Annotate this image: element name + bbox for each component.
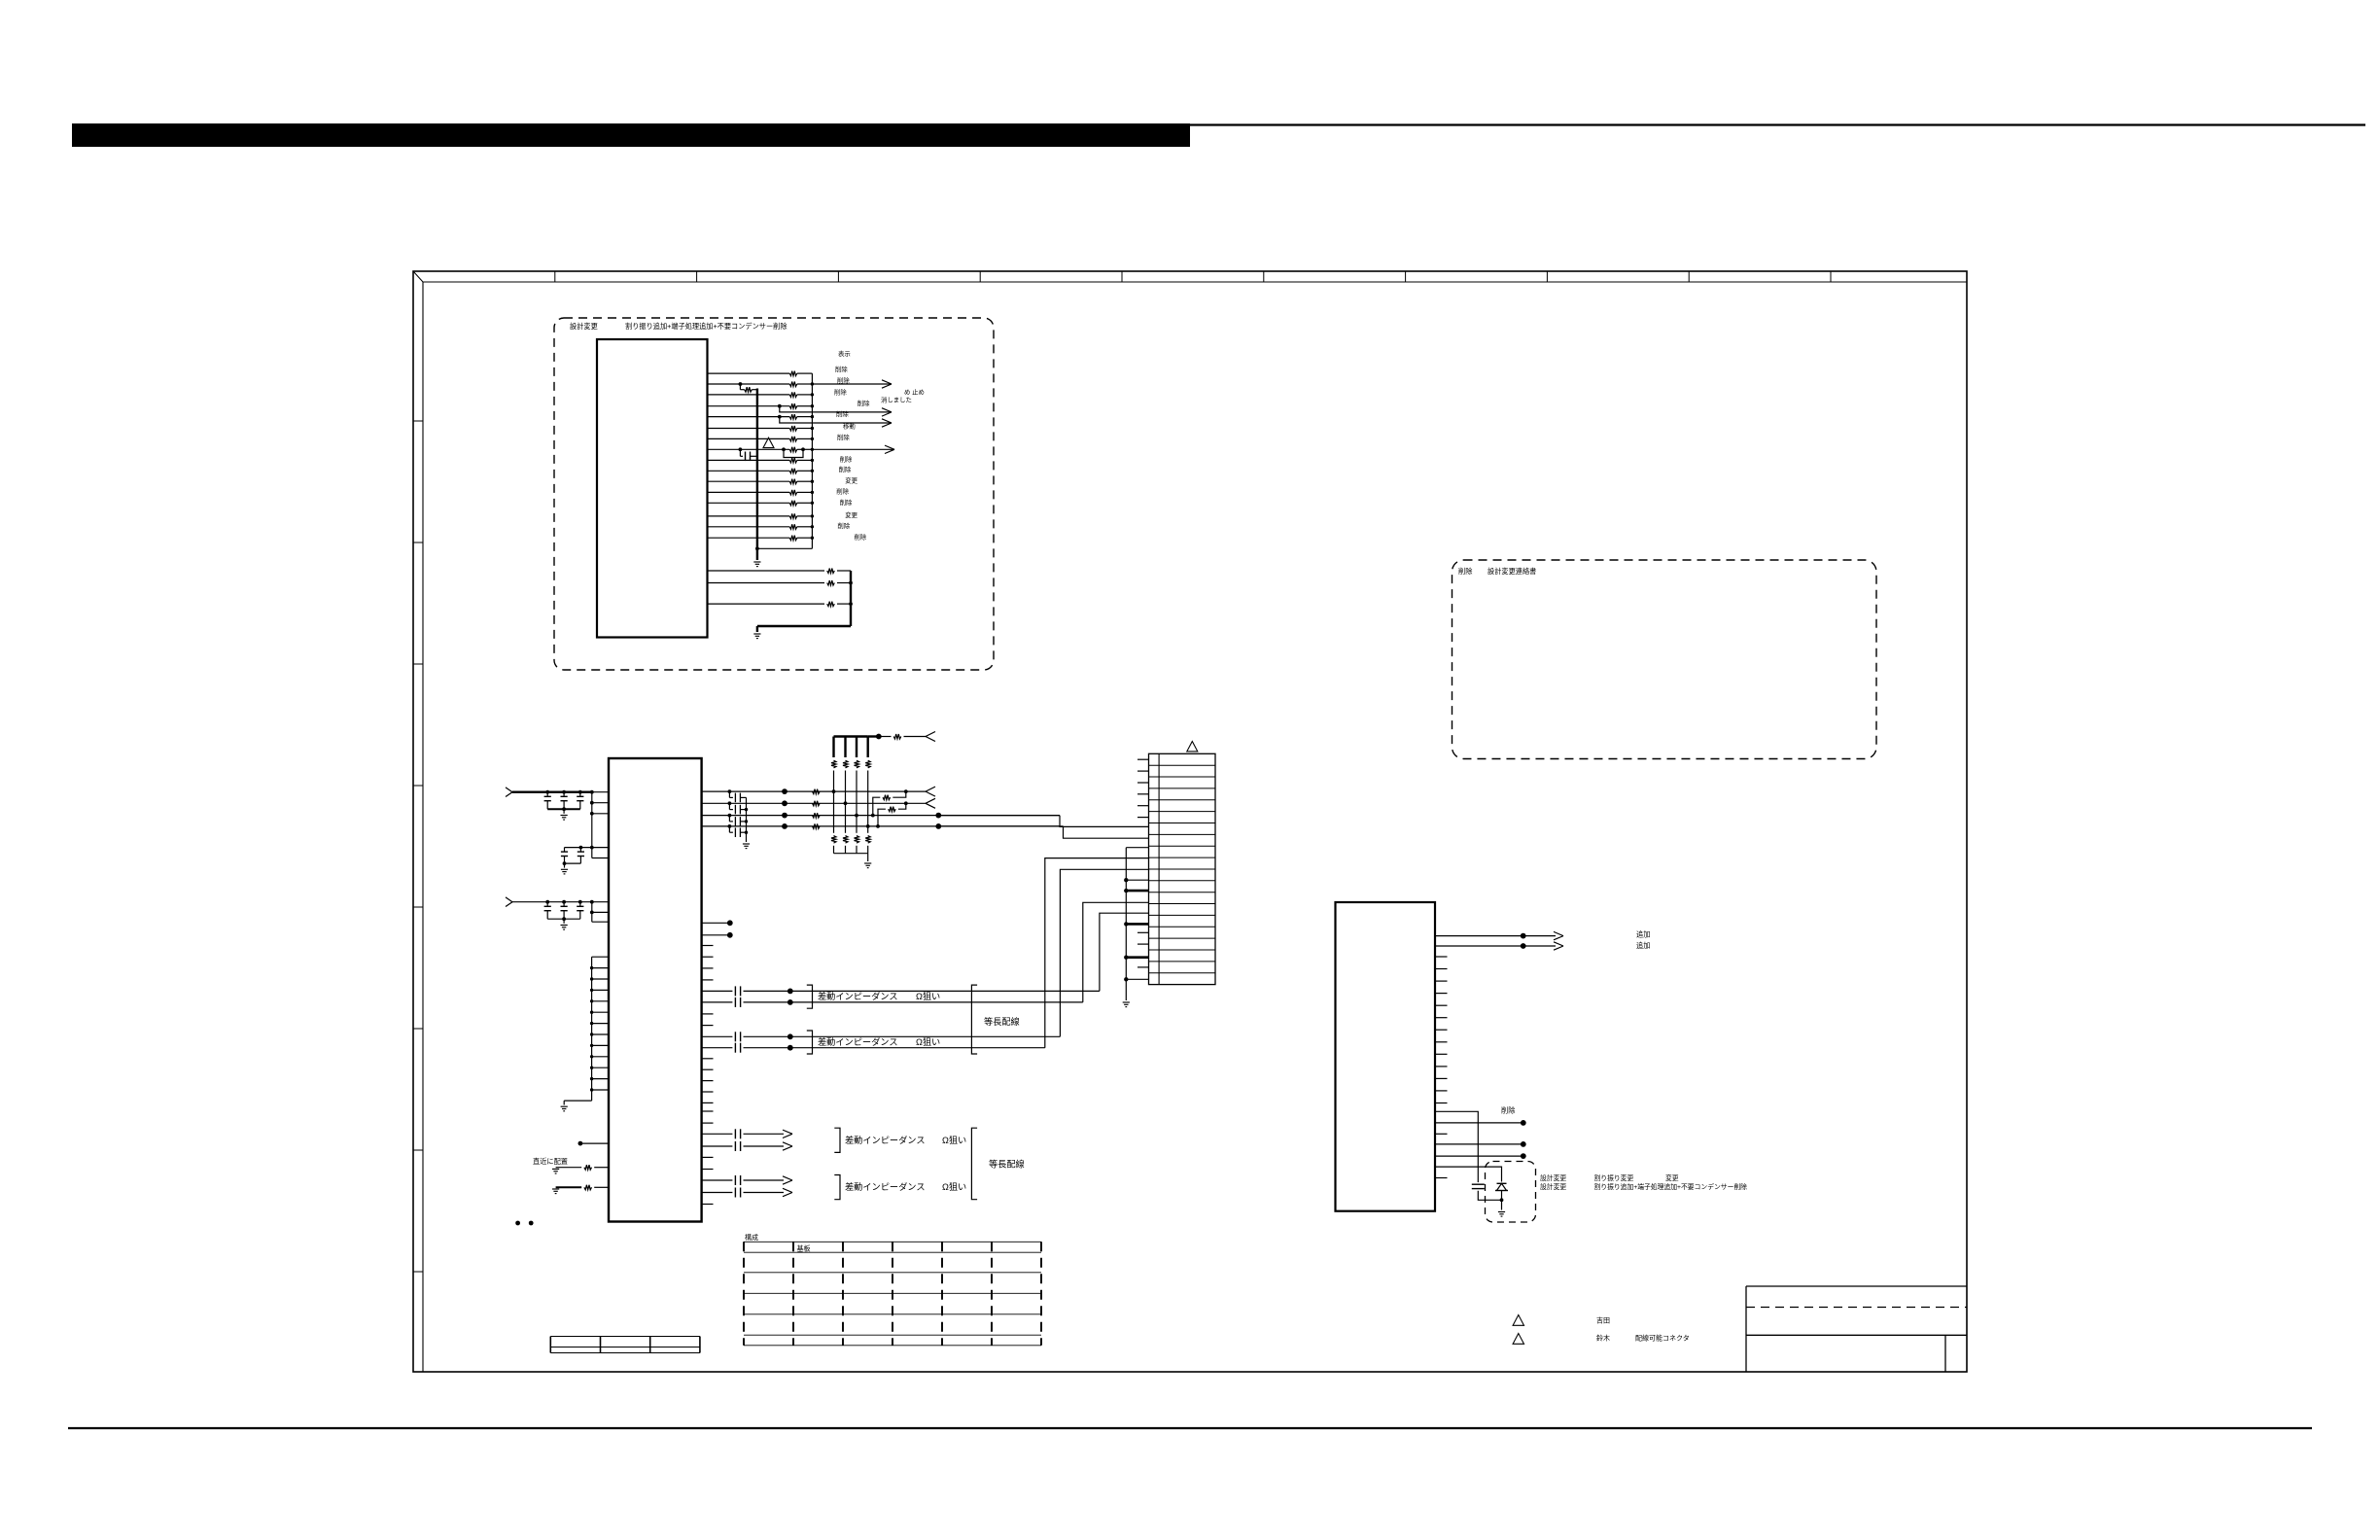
svg-text:割り振り追加+端子処理追加+不要コンデンサー削除: 割り振り追加+端子処理追加+不要コンデンサー削除	[1594, 1182, 1748, 1191]
svg-text:差動インピーダンス: 差動インピーダンス	[845, 1181, 926, 1192]
svg-text:変更: 変更	[845, 510, 857, 519]
svg-text:削除: 削除	[839, 465, 852, 473]
svg-text:鈴木: 鈴木	[1596, 1334, 1610, 1343]
svg-text:Ω狙い: Ω狙い	[942, 1136, 966, 1145]
svg-text:設計変更: 設計変更	[1540, 1182, 1566, 1191]
svg-text:Ω狙い: Ω狙い	[916, 992, 940, 1001]
svg-text:等長配線: 等長配線	[989, 1159, 1025, 1170]
svg-text:差動インピーダンス: 差動インピーダンス	[845, 1135, 926, 1145]
svg-text:表示: 表示	[838, 349, 851, 358]
svg-text:構成: 構成	[745, 1233, 758, 1242]
svg-text:等長配線: 等長配線	[984, 1016, 1020, 1027]
svg-text:割り振り変更: 割り振り変更	[1594, 1173, 1634, 1182]
svg-text:差動インピーダンス: 差動インピーダンス	[818, 1036, 898, 1047]
svg-text:Ω狙い: Ω狙い	[916, 1037, 940, 1047]
svg-text:設計変更連絡書: 設計変更連絡書	[1487, 567, 1536, 576]
svg-text:削除: 削除	[1501, 1106, 1515, 1115]
svg-text:設計変更: 設計変更	[1540, 1173, 1566, 1182]
svg-text:基板: 基板	[797, 1244, 811, 1253]
svg-text:追加: 追加	[1636, 930, 1650, 939]
svg-text:追加: 追加	[1636, 941, 1650, 950]
svg-text:削除: 削除	[854, 533, 866, 542]
svg-text:削除: 削除	[1458, 567, 1472, 576]
svg-text:削除: 削除	[837, 376, 850, 385]
svg-text:Ω狙い: Ω狙い	[942, 1182, 966, 1192]
svg-text:移動: 移動	[843, 422, 856, 431]
svg-text:め 止め: め 止め	[904, 388, 925, 397]
svg-text:削除: 削除	[837, 433, 850, 441]
svg-text:直近に配置: 直近に配置	[533, 1157, 568, 1166]
svg-text:吉田: 吉田	[1596, 1317, 1610, 1325]
svg-text:変更: 変更	[845, 476, 857, 485]
svg-text:設計変更: 設計変更	[570, 322, 598, 331]
svg-text:削除: 削除	[834, 388, 847, 397]
svg-text:配線可能コネクタ: 配線可能コネクタ	[1635, 1334, 1690, 1343]
svg-text:削除: 削除	[836, 487, 849, 496]
svg-text:差動インピーダンス: 差動インピーダンス	[818, 991, 898, 1001]
svg-text:割り振り追加+端子処理追加+不要コンデンサー削除: 割り振り追加+端子処理追加+不要コンデンサー削除	[625, 322, 787, 331]
svg-text:変更: 変更	[1665, 1173, 1679, 1182]
svg-text:削除: 削除	[836, 409, 849, 418]
svg-text:削除: 削除	[840, 498, 853, 507]
svg-text:削除: 削除	[835, 365, 848, 373]
svg-text:削除: 削除	[840, 455, 853, 464]
svg-text:削除: 削除	[857, 399, 870, 407]
svg-text:削除: 削除	[837, 521, 850, 530]
svg-text:消しました: 消しました	[881, 396, 912, 404]
